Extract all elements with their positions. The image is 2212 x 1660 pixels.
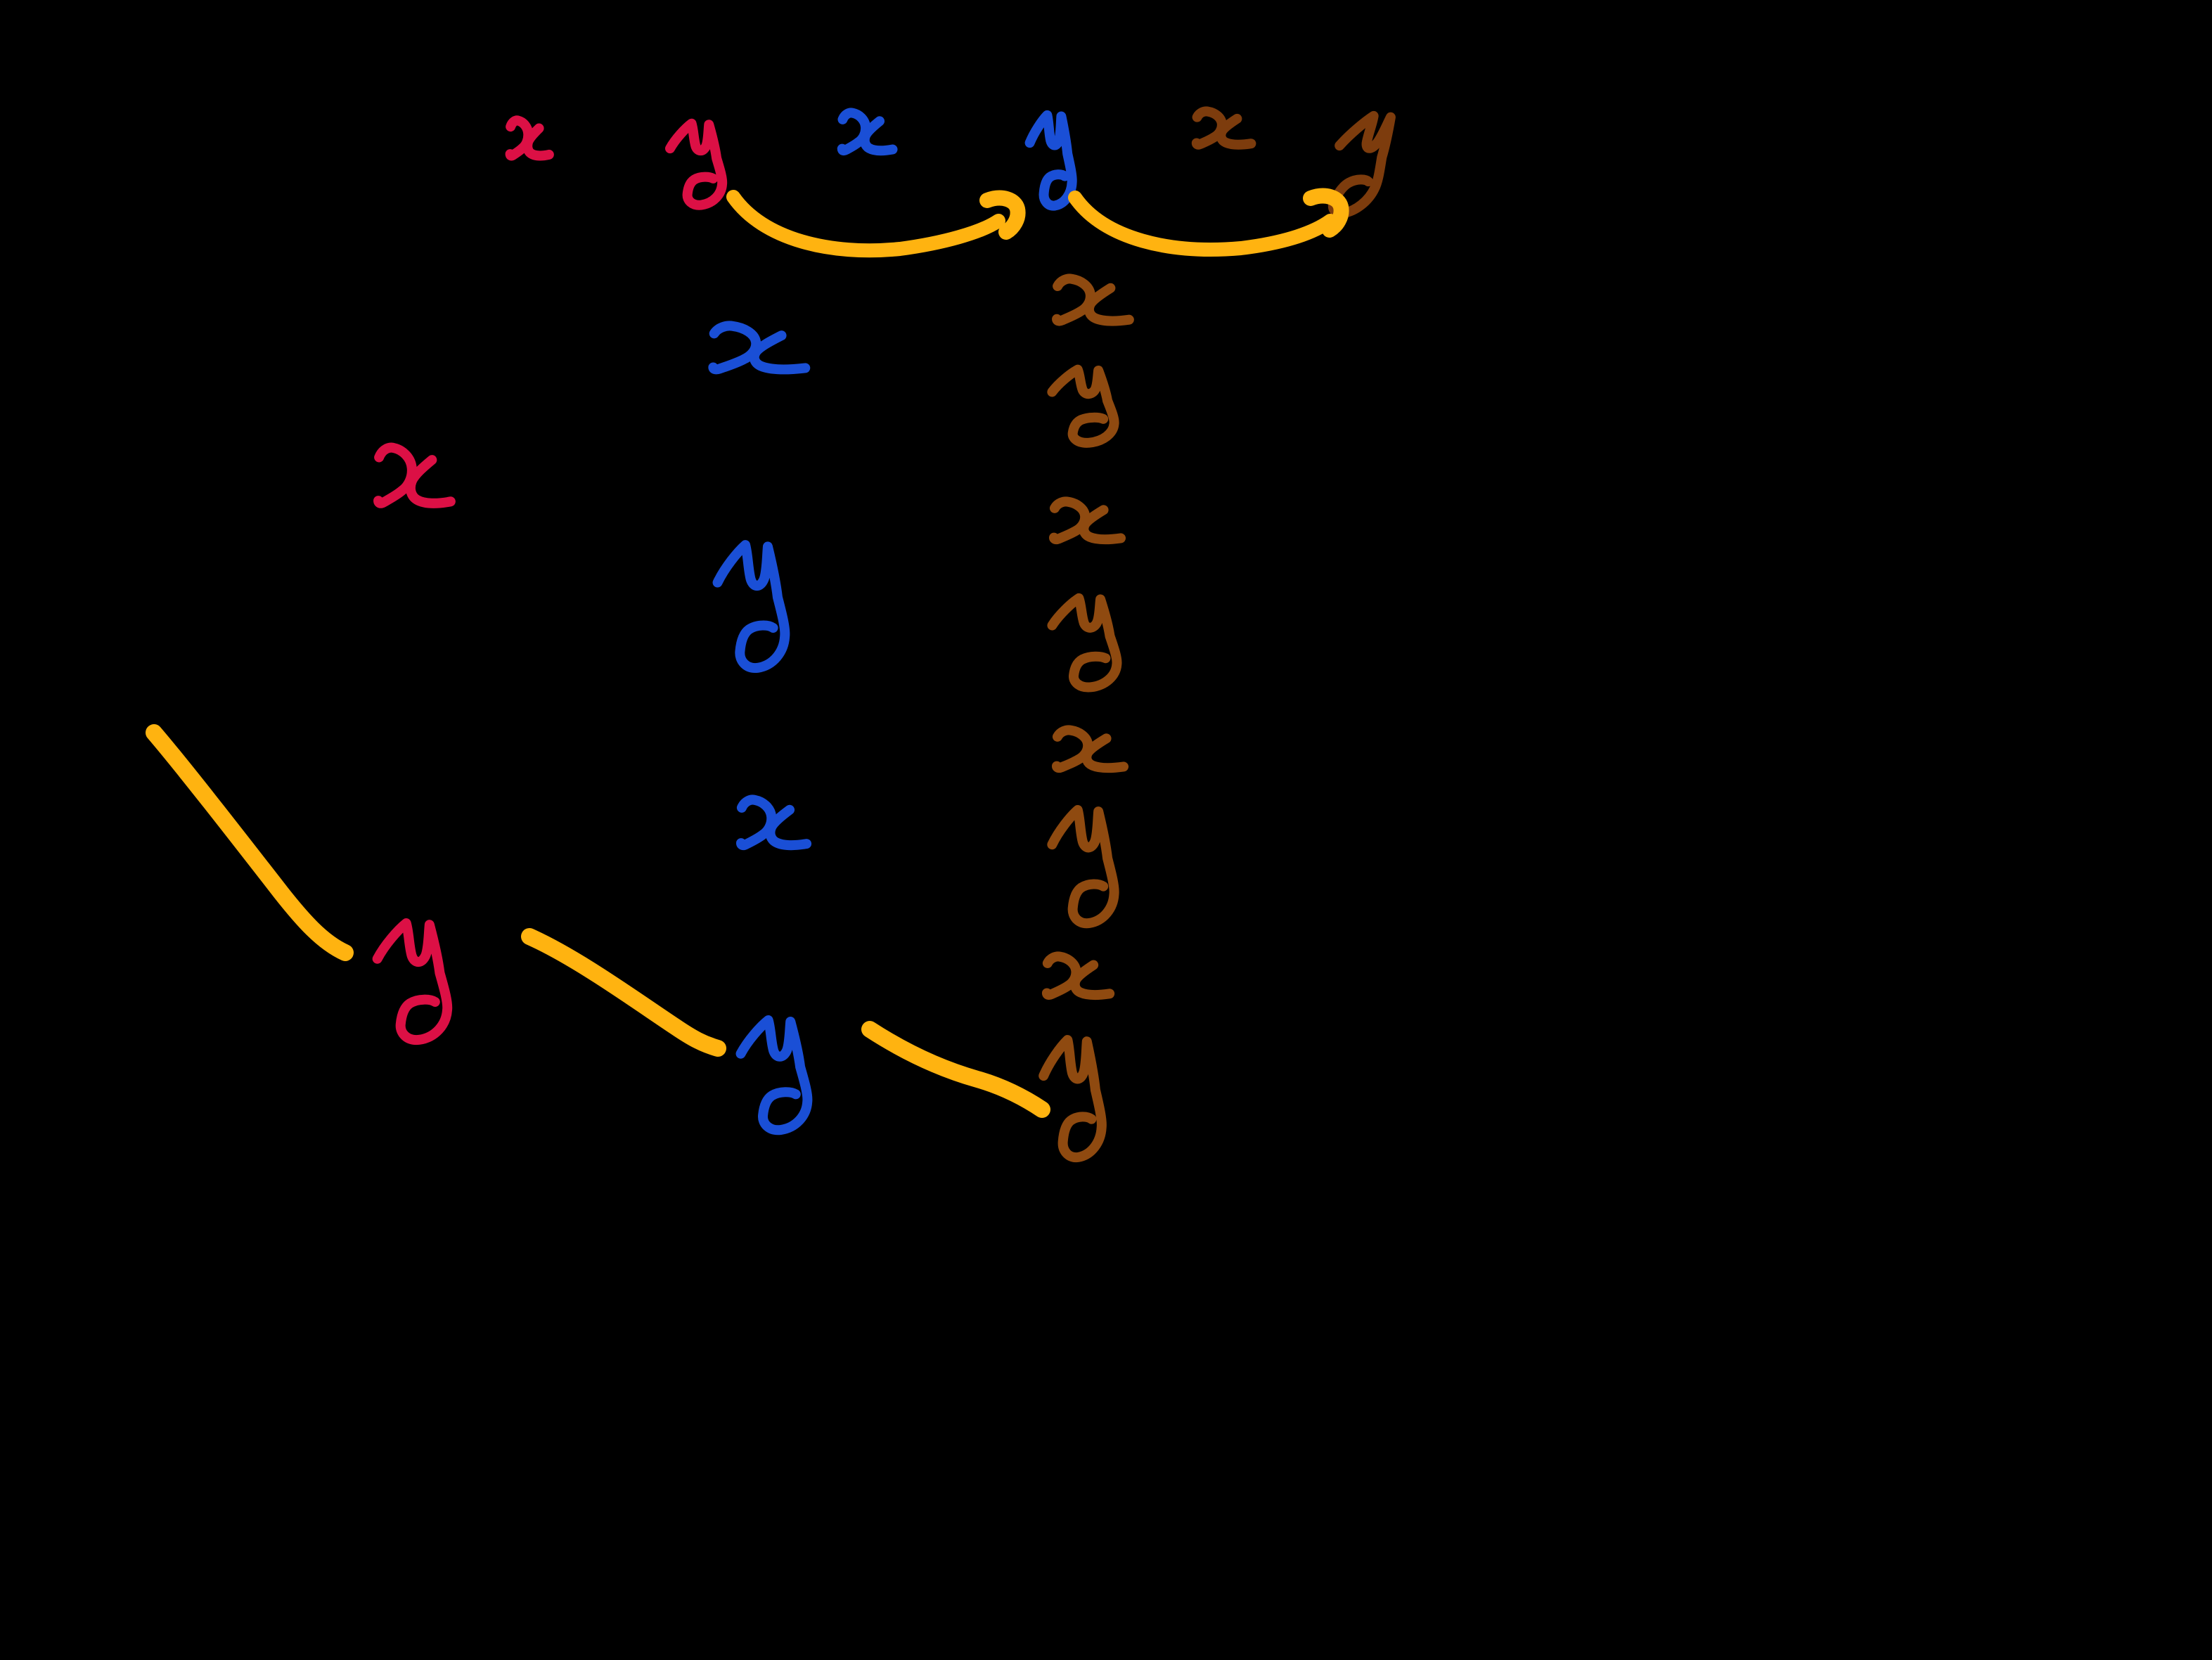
letter y red top row [670, 124, 722, 205]
brown column letter y 3 [1052, 810, 1114, 923]
letter y blue middle [718, 545, 785, 668]
brown column letter y 4 [1043, 1040, 1102, 1157]
letter y brown top row [1311, 116, 1404, 213]
brown column letter y 2 [1052, 598, 1117, 688]
brown column letter x 4 [1047, 956, 1110, 995]
letter x blue top row [842, 112, 893, 150]
orange arrow 2 head [1311, 196, 1342, 230]
brown column letter x 3 [1057, 730, 1124, 768]
orange segment C [870, 1029, 1042, 1109]
letter x red left [378, 448, 451, 503]
orange arrow 2 (blue y to brown y) [1075, 198, 1330, 250]
orange arrow 1 (red y to blue y) [733, 197, 998, 250]
brown column letter x 1 [1057, 278, 1129, 321]
letter x blue row2 [713, 326, 805, 369]
letter x red top row [510, 120, 549, 155]
letter y red lower [378, 923, 448, 1040]
brown column letter x 2 [1054, 501, 1121, 539]
letter x blue row3 [741, 799, 806, 845]
letter x brown top row [1197, 111, 1252, 144]
letter y blue lower [741, 1020, 808, 1130]
letter y blue top row [1030, 115, 1072, 206]
brown column letter y 1 [1052, 370, 1114, 443]
orange segment B [529, 937, 718, 1048]
orange arrow 1 head [987, 198, 1018, 232]
orange segment A [154, 733, 345, 953]
